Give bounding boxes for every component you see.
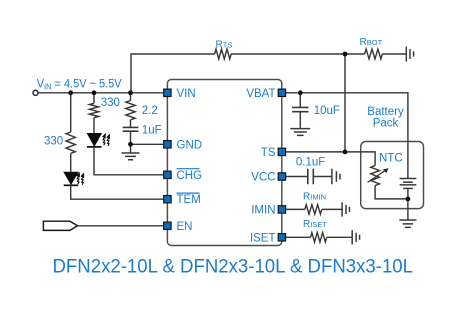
input terminal circle bbox=[33, 90, 38, 95]
pin IMIN bbox=[278, 206, 285, 213]
LED D2 bbox=[87, 134, 101, 146]
ground under C2 bbox=[290, 129, 310, 136]
wire: IMIN to RIMIN bbox=[286, 208, 305, 210]
pin VCC bbox=[278, 173, 285, 180]
svg-text:Pack: Pack bbox=[373, 118, 399, 130]
wire: NTC bottom to battery bottom bbox=[375, 186, 408, 199]
resistor RISET bbox=[311, 233, 327, 242]
svg-text:330: 330 bbox=[44, 136, 63, 148]
svg-text:IMIN: IMIN bbox=[251, 204, 275, 216]
pin TS bbox=[278, 148, 285, 155]
IC pin squares bbox=[164, 89, 286, 241]
pin CHG bbox=[164, 171, 171, 178]
pin TEM bbox=[164, 196, 171, 203]
ground (right-facing) after C3 bbox=[332, 169, 340, 185]
thermistor NTC bbox=[371, 166, 380, 186]
capacitor C3 0.1uF bbox=[308, 169, 314, 185]
wire: D1 to TEM pin bbox=[71, 185, 164, 199]
wire: RIMIN to ground bbox=[322, 208, 342, 210]
svg-text:TS: TS bbox=[261, 147, 276, 159]
node: VIN/R1 bbox=[68, 90, 73, 95]
wire: TS to NTC bbox=[286, 152, 375, 166]
wire: C2 to ground bbox=[299, 112, 301, 129]
pin VIN bbox=[164, 89, 171, 96]
node: VIN/R2 bbox=[92, 90, 97, 95]
node: RTS/RBOT bbox=[343, 52, 348, 57]
resistor R3 2.2 (third branch) bbox=[126, 93, 135, 120]
svg-text:CHG: CHG bbox=[177, 170, 203, 182]
EN input connector bbox=[43, 221, 77, 230]
svg-text:RTS: RTS bbox=[216, 40, 233, 51]
svg-text:10uF: 10uF bbox=[314, 105, 340, 117]
wire: C3 to ground bbox=[313, 176, 331, 178]
svg-text:RBOT: RBOT bbox=[360, 37, 383, 48]
IC U1 body bbox=[167, 80, 281, 246]
resistor R1 330 (left branch) bbox=[66, 93, 75, 154]
svg-text:DFN2x2-10L & DFN2x3-10L & DFN3: DFN2x2-10L & DFN2x3-10L & DFN3x3-10L bbox=[53, 255, 414, 277]
wire: EN connector to EN pin bbox=[78, 225, 164, 227]
pin VBAT bbox=[278, 89, 285, 96]
wire: C1 to GND pin and node bbox=[131, 131, 164, 152]
pin GND bbox=[164, 141, 171, 148]
ground (right-facing) after RIMIN bbox=[342, 202, 349, 216]
wire: RISET to ground bbox=[327, 236, 352, 238]
svg-text:0.1uF: 0.1uF bbox=[296, 156, 325, 168]
capacitor C1 1uF bbox=[123, 127, 139, 131]
wire: ISET to RISET bbox=[286, 236, 311, 238]
node: C1/GND bbox=[128, 142, 133, 147]
wire: top rail from node A up and right to RTS bbox=[131, 54, 215, 93]
ground (right-facing) after RISET bbox=[352, 230, 359, 244]
svg-text:RISET: RISET bbox=[303, 219, 327, 230]
wire: battery to ground bbox=[407, 188, 409, 219]
svg-text:Battery: Battery bbox=[367, 106, 404, 118]
battery BT1 bbox=[400, 178, 417, 180]
resistor RBOT bbox=[365, 49, 383, 59]
wire: top node to TS node bbox=[344, 54, 346, 152]
svg-text:1uF: 1uF bbox=[142, 124, 162, 136]
wire: R3 to C1 bbox=[130, 120, 132, 127]
wire: VIN rail bbox=[38, 92, 164, 94]
pin EN bbox=[164, 222, 171, 229]
ground under C1 bbox=[122, 153, 140, 160]
wire: D2 to CHG pin bbox=[94, 147, 163, 175]
svg-text:VBAT: VBAT bbox=[246, 88, 275, 100]
node: TS bbox=[343, 150, 348, 155]
wire: C2 stem bbox=[299, 93, 301, 107]
resistor R2 330 (second branch) bbox=[89, 93, 98, 118]
LED D1 bbox=[64, 172, 78, 184]
svg-text:EN: EN bbox=[177, 221, 193, 233]
svg-text:VIN = 4.5V ~ 5.5V: VIN = 4.5V ~ 5.5V bbox=[37, 76, 122, 91]
pin ISET bbox=[278, 234, 285, 241]
battery pack box bbox=[361, 142, 424, 209]
wire: R2 to LED D2 bbox=[93, 118, 95, 134]
ground under battery pack bbox=[399, 220, 416, 227]
wire: RTS to RBOT bbox=[231, 53, 365, 55]
svg-text:TEM: TEM bbox=[177, 194, 201, 206]
svg-text:330: 330 bbox=[101, 97, 120, 109]
wire: VBAT to battery top bbox=[286, 93, 408, 178]
ground (right-facing) after RBOT bbox=[406, 47, 413, 62]
svg-text:ISET: ISET bbox=[250, 232, 276, 244]
junction node dots bbox=[68, 52, 410, 202]
svg-text:GND: GND bbox=[177, 139, 203, 151]
node: VBAT/C2 bbox=[298, 90, 303, 95]
svg-text:VCC: VCC bbox=[251, 172, 275, 184]
svg-text:NTC: NTC bbox=[379, 153, 403, 165]
node: VIN/R3/top-rail bbox=[128, 90, 133, 95]
resistor RTS bbox=[215, 49, 232, 59]
wire: R1 to LED D1 bbox=[70, 154, 72, 173]
svg-text:2.2: 2.2 bbox=[142, 105, 158, 117]
wire: RBOT to ground bbox=[382, 53, 406, 55]
wire: VCC to C3 bbox=[286, 176, 308, 178]
node: battery/NTC bbox=[406, 197, 411, 202]
svg-text:VIN: VIN bbox=[177, 88, 196, 100]
capacitor C2 10uF bbox=[292, 107, 308, 111]
svg-text:RIMIN: RIMIN bbox=[303, 192, 326, 203]
resistor RIMIN bbox=[305, 205, 322, 214]
